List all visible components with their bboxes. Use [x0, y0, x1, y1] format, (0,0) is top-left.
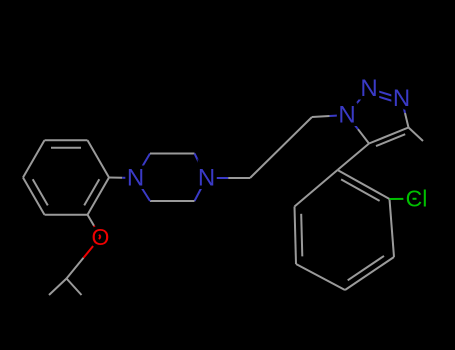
- bond piperazine C5-N4 (lower left): [136, 178, 151, 201]
- bond piperazine N1-C6 (lower right): [195, 178, 207, 201]
- bond benzene C5-C4: [23, 140, 45, 177]
- svg-text:N: N: [360, 75, 377, 102]
- bond chlorophenyl C2-C3 (right edge): [390, 199, 395, 257]
- atom label N triazole N3: [393, 85, 410, 112]
- bond isopropyl CH to methyl (left): [49, 279, 67, 296]
- bond piperazine C3-C2 (top edge): [150, 153, 195, 155]
- bond benzene C3-C2 (bottom edge): [45, 214, 88, 216]
- svg-text:N: N: [393, 85, 410, 112]
- bond piperazine N1 to chain CH2: [207, 177, 251, 179]
- bond chlorophenyl C2 to Cl: [390, 198, 417, 200]
- bond triazole N3-C4: [402, 99, 409, 128]
- bond piperazine C2-N1 (upper right): [195, 154, 207, 179]
- bond benzene C2 to ether O: [88, 215, 101, 237]
- bond triazole N1-N2: [347, 89, 369, 116]
- bond piperazine N4-C3 (upper left): [136, 154, 151, 179]
- bond triazole C5 to chlorophenyl C1: [338, 144, 370, 171]
- bond ether O to isopropyl CH: [67, 237, 101, 279]
- atom label N triazole N1: [338, 102, 355, 129]
- bond chlorophenyl C6-C1: [295, 170, 338, 207]
- atom label N piperazine N1: [198, 165, 215, 192]
- double bond triazole N2=N3: [369, 89, 402, 103]
- svg-text:O: O: [92, 224, 110, 250]
- double bond chlorophenyl C1=C2: [338, 170, 390, 201]
- bond chain CH2 to triazole N1: [312, 115, 347, 117]
- atom label N piperazine N4: [127, 165, 144, 192]
- double bond chlorophenyl C5=C6 (left edge): [295, 207, 303, 265]
- bond triazole C5-N1: [347, 115, 369, 144]
- svg-text:N: N: [198, 165, 215, 192]
- chain CH2-CH2 bonds (drawn straight diagonal): [250, 117, 312, 178]
- svg-text:Cl: Cl: [406, 186, 428, 212]
- bond isopropyl CH to methyl (right): [67, 279, 82, 296]
- atom label N triazole N2: [360, 75, 377, 102]
- svg-text:N: N: [127, 165, 144, 192]
- bond benzene C1-C6: [88, 140, 110, 177]
- double bond benzene C6=C5 (top edge): [45, 140, 88, 148]
- atom label Cl (chlorine): [406, 186, 428, 212]
- double bond benzene C4=C3 (lower left edge): [23, 178, 48, 215]
- bond piperazine C6-C5 (bottom edge): [150, 200, 195, 202]
- svg-text:N: N: [338, 102, 355, 129]
- bond benzene C1 to piperazine N4: [109, 177, 136, 180]
- bond chlorophenyl C4-C5 (bottom left edge): [296, 264, 345, 290]
- double bond chlorophenyl C3=C4: [345, 256, 394, 290]
- bond triazole C4 to methyl: [409, 128, 424, 142]
- double bond triazole C4=C5: [369, 128, 409, 147]
- atom label O (ether oxygen): [92, 224, 110, 250]
- double bond benzene C2=C1: [84, 178, 109, 215]
